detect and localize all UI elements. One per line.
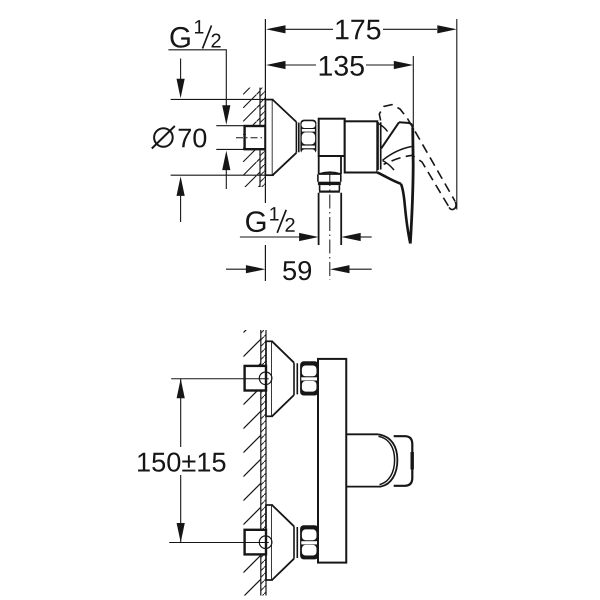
lower escutcheon front band [294, 526, 297, 558]
upper connection centerline [171, 378, 269, 380]
outlet dome arc [319, 172, 341, 174]
G 1/2 bottom arrow left [341, 233, 361, 241]
handle block top line [346, 433, 378, 435]
lower supply elbow box [245, 530, 266, 555]
upper escutcheon backplate [266, 341, 272, 416]
nipple extension line top [216, 125, 244, 127]
cap dome outer arc [378, 434, 397, 486]
G 1/2 top arrow up [222, 151, 230, 171]
outlet upper section [318, 174, 341, 182]
outlet tube G1/2 [319, 193, 342, 245]
label 175 [336, 20, 380, 40]
diameter symbol [154, 128, 173, 147]
arrow right of 135 [394, 61, 414, 69]
wall face line [264, 19, 266, 281]
upper ball circle [259, 372, 272, 385]
label 135 [320, 56, 364, 76]
wall line left bottom [260, 330, 262, 596]
inlet centerline [236, 137, 263, 139]
G 1/2 top arrow down [222, 105, 230, 125]
dia70 arrow up [177, 176, 185, 196]
dashed lever tip hook [449, 202, 456, 210]
label 59 [283, 261, 311, 280]
wall line left [259, 88, 261, 187]
outlet thick band 2 [319, 191, 340, 193]
dimension 175 extension line right [456, 19, 458, 210]
lower ball circle [259, 536, 272, 549]
wall hatch dense band bottom [261, 330, 266, 596]
lower escutcheon backplate [266, 505, 272, 580]
dashed lever open position [379, 105, 455, 202]
outlet centerline [329, 172, 331, 280]
cap dome lower arc [383, 161, 395, 171]
handle block bottom line [346, 486, 381, 488]
wall face line bottom [265, 330, 267, 596]
outlet neck [319, 156, 341, 174]
escutcheon front face band [296, 122, 298, 153]
G 1/2 bottom arrow left tail [360, 236, 372, 238]
G 1/2 top arrow up tail [225, 169, 227, 189]
slash of G 1/2 top [203, 26, 212, 49]
arrow 59 left [246, 265, 266, 273]
arrow 59 right [330, 265, 350, 273]
lever top edge [399, 122, 413, 127]
lower connection centerline [169, 542, 269, 544]
nipple extension line bottom [216, 148, 244, 150]
cartridge cap ring [378, 122, 381, 170]
inlet nipple box [245, 126, 266, 149]
dia70 extension line bottom [171, 174, 274, 176]
arrow 150 down [177, 523, 185, 543]
upper supply elbow box [245, 366, 266, 391]
lever outer edge [410, 128, 413, 244]
label 70 [179, 128, 207, 147]
wall hatch coarse band bottom [244, 330, 261, 596]
cap dome inner arc [379, 436, 395, 484]
arrow left of 135 [266, 61, 286, 69]
dimension 59 line left [226, 268, 247, 270]
wall hatch coarse band [243, 88, 260, 187]
blade right edge thick band [411, 452, 414, 470]
union nut side view [300, 120, 316, 157]
escutcheon backplate [265, 100, 272, 176]
outlet lower section [320, 185, 340, 190]
G 1/2 bottom leader line [240, 236, 300, 238]
dimension texts top [320, 20, 381, 76]
dia70 extension line top [171, 98, 273, 100]
cap dome top arc [378, 124, 387, 132]
label G 1/2 bottom [246, 207, 295, 232]
dia70 arrow down [180, 59, 182, 81]
lower escutcheon cone [272, 505, 294, 580]
faucet fixture top drawing [236, 100, 456, 280]
upper union nut front view [300, 361, 318, 395]
lever inner edge [401, 184, 410, 244]
G 1/2 top leader underline [168, 50, 226, 107]
upper escutcheon front band [294, 363, 297, 395]
body block 1 [319, 119, 345, 156]
dimension 150 line lower [180, 475, 182, 543]
body front view [318, 359, 346, 563]
wall hatch dense band [260, 88, 265, 187]
lever front slant [381, 122, 399, 148]
cap dome silhouette arc [383, 147, 412, 161]
arrow right of 175 [437, 25, 457, 33]
arrow 150 up [177, 379, 185, 399]
dimension 150 line upper [180, 379, 182, 447]
G 1/2 bottom arrow right [299, 233, 319, 241]
upper escutcheon cone [272, 341, 294, 416]
lower union nut front view [300, 525, 318, 559]
dashed lever lower edge [384, 155, 449, 206]
slash of G 1/2 bottom [277, 210, 286, 233]
dimension line 135 [285, 64, 394, 66]
dimension 59 line right [349, 268, 372, 270]
dimension 135 extension line right [412, 56, 414, 127]
label 150+-15 [138, 453, 225, 472]
dimension line 175 [285, 28, 437, 30]
solid lever body [377, 122, 413, 243]
lever underside [377, 172, 401, 183]
body block 2 cartridge housing [345, 121, 378, 172]
arrow left of 175 [266, 25, 286, 33]
escutcheon cone [273, 100, 297, 176]
label G 1/2 top [170, 20, 220, 48]
outlet thick band 1 [318, 182, 341, 185]
handle blade end-on [394, 436, 413, 486]
